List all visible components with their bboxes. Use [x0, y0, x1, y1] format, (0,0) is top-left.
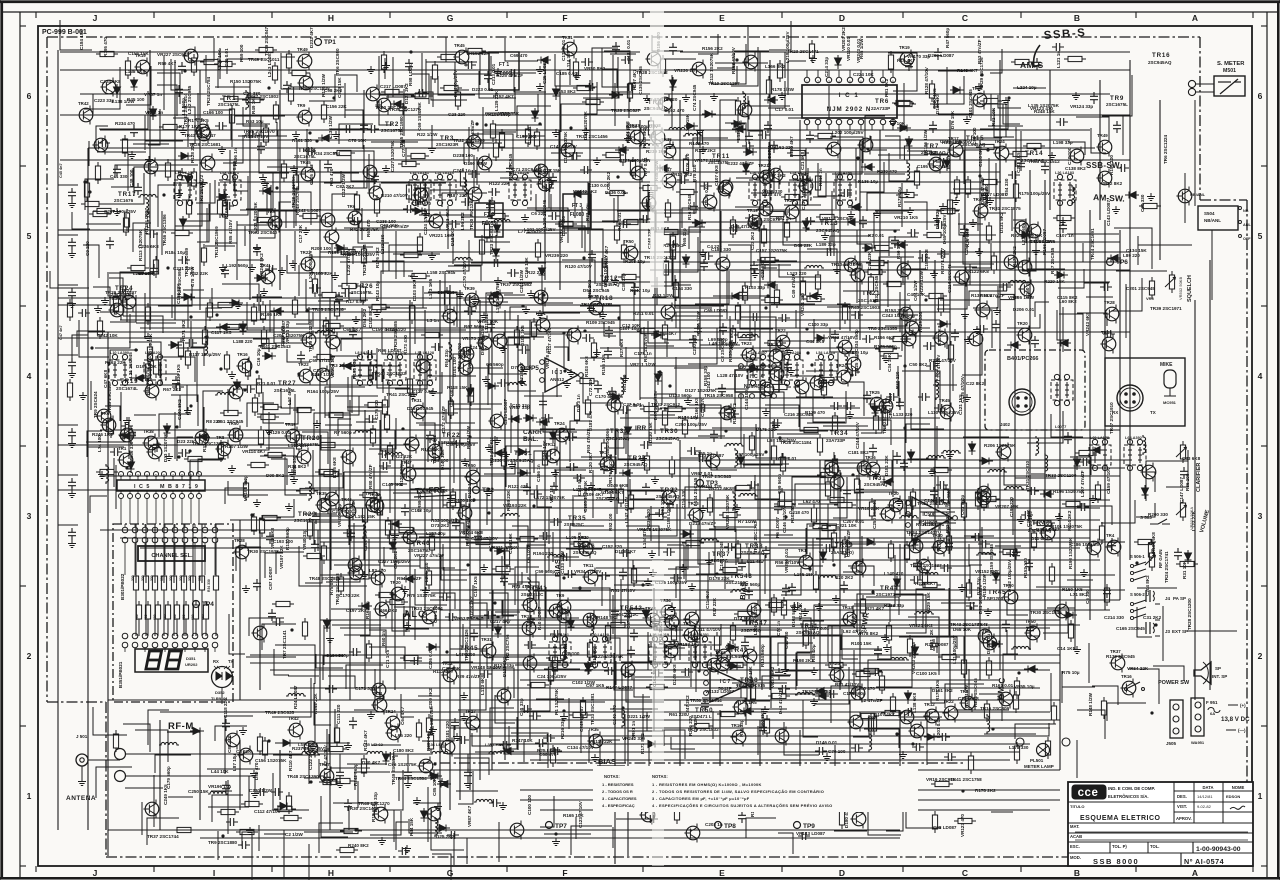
svg-text:C132 1/2W: C132 1/2W: [328, 115, 333, 139]
svg-text:TR21: TR21: [535, 311, 546, 316]
svg-text:TR31: TR31: [411, 398, 422, 403]
svg-text:I C 7: I C 7: [720, 679, 731, 685]
svg-text:6: 6: [860, 80, 862, 84]
svg-text:D54 10K: D54 10K: [660, 496, 665, 515]
svg-text:R1 1S2075K: R1 1S2075K: [554, 688, 559, 715]
svg-text:C214 330: C214 330: [1104, 615, 1124, 620]
svg-text:C152 220: C152 220: [602, 544, 622, 549]
svg-text:R134 560p: R134 560p: [760, 644, 765, 667]
svg-text:C5 330: C5 330: [1085, 589, 1090, 604]
svg-text:MIKE: MIKE: [1160, 362, 1173, 368]
svg-text:2SC1617L: 2SC1617L: [858, 298, 880, 303]
svg-text:R229 330: R229 330: [918, 312, 923, 332]
svg-text:DES.: DES.: [1177, 794, 1187, 799]
svg-text:C21 6K8: C21 6K8: [760, 259, 765, 278]
svg-text:ELETRÔNICOS S/A.: ELETRÔNICOS S/A.: [1108, 794, 1149, 799]
svg-text:R40 LD087: R40 LD087: [537, 606, 542, 630]
svg-text:10: 10: [197, 473, 201, 477]
svg-text:C60 330: C60 330: [1140, 194, 1145, 212]
svg-text:VR502 50KB: VR502 50KB: [1178, 277, 1183, 300]
svg-text:2SC1675L: 2SC1675L: [708, 160, 730, 165]
svg-text:C165 2SC945: C165 2SC945: [1116, 626, 1145, 631]
svg-text:TR8: TR8: [216, 435, 225, 440]
svg-text:C39 33p: C39 33p: [621, 273, 626, 291]
svg-text:TR9 2SC1880: TR9 2SC1880: [208, 840, 238, 845]
svg-text:TR35: TR35: [316, 491, 327, 496]
svg-text:R128 220: R128 220: [190, 143, 195, 163]
svg-text:VR176 2SC945: VR176 2SC945: [608, 454, 613, 486]
svg-text:L10 LA390: L10 LA390: [110, 351, 129, 355]
svg-text:3 - CAPACITORES EM µF, +=10⁻³µ: 3 - CAPACITORES EM µF, +=10⁻³µF µ=10⁻⁶µF: [652, 796, 750, 801]
svg-text:R118 15K: R118 15K: [447, 385, 468, 390]
svg-text:L162 470: L162 470: [665, 108, 685, 113]
svg-text:R45 100: R45 100: [127, 97, 145, 102]
svg-text:TR12: TR12: [600, 275, 618, 282]
svg-text:2SC945AQ: 2SC945AQ: [656, 436, 680, 441]
svg-text:R236 1K5: R236 1K5: [176, 364, 181, 385]
svg-text:VR91 1n: VR91 1n: [631, 721, 636, 739]
svg-text:TITULO: TITULO: [1070, 804, 1084, 809]
svg-text:L36 LA288: L36 LA288: [782, 351, 801, 355]
svg-text:C226 6K8: C226 6K8: [138, 244, 159, 249]
svg-text:C2 2SC945: C2 2SC945: [720, 338, 725, 362]
svg-text:L173 1K5: L173 1K5: [428, 278, 433, 299]
svg-text:CHANNEL SEL.: CHANNEL SEL.: [151, 553, 193, 559]
svg-text:C72 22K: C72 22K: [588, 377, 593, 396]
svg-text:R229 15K: R229 15K: [926, 592, 931, 613]
svg-text:R216 33p: R216 33p: [560, 719, 565, 739]
svg-text:L203 1S2075K: L203 1S2075K: [253, 201, 258, 233]
svg-text:C49 47n/ZF: C49 47n/ZF: [791, 273, 796, 298]
svg-text:R175 100µ/25V: R175 100µ/25V: [1018, 191, 1051, 196]
svg-text:Nº AI-0574: Nº AI-0574: [1184, 857, 1224, 866]
svg-text:D238 100: D238 100: [453, 153, 473, 158]
svg-text:4: 4: [27, 371, 32, 381]
svg-text:C76 8K2: C76 8K2: [934, 368, 939, 387]
svg-text:TR3 2SC1772: TR3 2SC1772: [199, 174, 204, 204]
svg-text:TR50: TR50: [228, 421, 239, 426]
svg-text:D108 4K7: D108 4K7: [615, 549, 636, 554]
svg-text:VR12 8K2: VR12 8K2: [1101, 181, 1123, 186]
svg-text:C184 15K: C184 15K: [79, 29, 84, 50]
svg-text:TR1: TR1: [365, 491, 374, 496]
svg-text:VR52 47/10V: VR52 47/10V: [828, 335, 856, 340]
svg-text:AM-SW.: AM-SW.: [1093, 192, 1125, 204]
svg-text:5042P: 5042P: [718, 686, 733, 692]
svg-text:TR16: TR16: [1152, 52, 1170, 59]
svg-text:C87 LD087: C87 LD087: [268, 566, 273, 590]
svg-text:NJM 2902 N: NJM 2902 N: [827, 106, 872, 113]
svg-text:R178 2K2: R178 2K2: [975, 788, 996, 793]
svg-text:TR2: TR2: [385, 121, 399, 128]
svg-text:TR31: TR31: [514, 450, 532, 457]
svg-text:S504: S504: [1204, 211, 1215, 216]
svg-text:L197 47n/ZF: L197 47n/ZF: [1080, 470, 1085, 497]
svg-text:TX: TX: [228, 659, 234, 664]
svg-text:2: 2: [817, 80, 819, 84]
svg-text:C87 100µ/25V: C87 100µ/25V: [735, 452, 765, 457]
svg-text:A: A: [1192, 13, 1198, 23]
svg-text:R66 100µ/25V: R66 100µ/25V: [465, 516, 470, 546]
svg-text:TX-FRE: TX-FRE: [415, 484, 447, 496]
svg-text:2SC1675L: 2SC1675L: [111, 292, 133, 297]
svg-text:L111 47/10V: L111 47/10V: [695, 627, 722, 632]
svg-text:R230 470: R230 470: [877, 169, 897, 174]
svg-text:C157 1K5: C157 1K5: [473, 576, 478, 597]
svg-text:C101 2SC945: C101 2SC945: [968, 89, 973, 118]
svg-text:9-02-82: 9-02-82: [1197, 804, 1212, 809]
svg-text:MAT.: MAT.: [1070, 824, 1079, 829]
svg-text:2: 2: [1258, 651, 1263, 661]
svg-text:NB/ANL: NB/ANL: [1204, 218, 1221, 223]
svg-text:VR36 330: VR36 330: [129, 441, 134, 462]
svg-text:TR44: TR44: [880, 585, 898, 592]
svg-text:R156 1K5: R156 1K5: [601, 354, 606, 375]
svg-text:TR33 2SC912: TR33 2SC912: [651, 402, 681, 407]
svg-text:C215 330: C215 330: [332, 509, 352, 514]
svg-text:3: 3: [828, 80, 830, 84]
svg-text:VR114 4K7: VR114 4K7: [242, 449, 266, 454]
svg-text:VR227 47n/ZF: VR227 47n/ZF: [414, 553, 444, 558]
svg-text:L5 LA298: L5 LA298: [835, 171, 852, 175]
svg-text:2SB525C: 2SB525C: [708, 558, 729, 563]
svg-text:I C 5: I C 5: [134, 484, 150, 490]
svg-text:C250 100µ/25V: C250 100µ/25V: [675, 422, 708, 427]
svg-text:2SC945AQ: 2SC945AQ: [510, 458, 534, 463]
svg-text:TP7: TP7: [555, 823, 567, 830]
svg-text:L44 10K: L44 10K: [211, 769, 229, 774]
svg-text:VR152 4K7: VR152 4K7: [975, 569, 999, 574]
svg-text:R195 470: R195 470: [103, 37, 108, 57]
svg-text:PA: PA: [1148, 541, 1155, 546]
svg-text:C247 47n/ZF: C247 47n/ZF: [382, 224, 409, 229]
svg-text:VR503 50KA: VR503 50KA: [1189, 507, 1194, 530]
svg-text:TR29: TR29: [298, 511, 316, 518]
svg-text:L133 220: L133 220: [893, 412, 913, 417]
svg-text:C102 1/2W: C102 1/2W: [572, 680, 596, 685]
svg-text:R211 0.01: R211 0.01: [633, 311, 654, 316]
svg-text:R120 4K7: R120 4K7: [588, 452, 593, 473]
svg-text:S 506-2: S 506-2: [1130, 592, 1145, 597]
svg-text:2SC1675L: 2SC1675L: [218, 102, 240, 107]
svg-text:TR31: TR31: [768, 342, 779, 347]
svg-text:D18 2K2: D18 2K2: [450, 227, 455, 246]
svg-text:2SC945AQ: 2SC945AQ: [596, 282, 620, 287]
svg-text:D76 470: D76 470: [685, 153, 690, 171]
svg-text:R2 0.01: R2 0.01: [868, 233, 885, 238]
svg-text:R179 2K2: R179 2K2: [1012, 246, 1017, 267]
svg-text:330: 330: [198, 575, 202, 581]
svg-text:TR31: TR31: [562, 35, 573, 40]
svg-text:C214 2SC945: C214 2SC945: [947, 264, 952, 293]
svg-text:1 - RESISTORES: 1 - RESISTORES: [602, 782, 634, 787]
svg-text:VR55 10µ: VR55 10µ: [1014, 684, 1035, 689]
svg-text:D170 47n/ZF: D170 47n/ZF: [980, 177, 985, 204]
svg-text:C206 1/2W: C206 1/2W: [696, 310, 701, 334]
svg-text:C22 8K2: C22 8K2: [966, 381, 985, 386]
svg-text:2SD471 L: 2SD471 L: [691, 714, 712, 719]
svg-text:C226 0.01: C226 0.01: [428, 647, 433, 669]
svg-text:NOTAS:: NOTAS:: [604, 774, 620, 779]
svg-text:F: F: [562, 868, 567, 878]
svg-text:TR35: TR35: [568, 515, 586, 522]
svg-text:R143 470: R143 470: [689, 141, 709, 146]
svg-text:VR122 6K8: VR122 6K8: [965, 269, 989, 274]
svg-text:C31 2K2: C31 2K2: [1143, 615, 1162, 620]
svg-text:VR5: VR5: [1146, 296, 1155, 301]
svg-text:F 951: F 951: [1206, 700, 1218, 705]
svg-text:VR207 15K: VR207 15K: [995, 504, 1019, 509]
svg-text:D43 47n/ZF: D43 47n/ZF: [778, 689, 783, 714]
svg-text:TR6: TR6: [875, 98, 889, 105]
svg-text:D131 8K2: D131 8K2: [999, 212, 1004, 233]
svg-text:C150 47/10V: C150 47/10V: [372, 327, 400, 332]
svg-text:L123 220: L123 220: [787, 271, 807, 276]
svg-text:B401/PC266: B401/PC266: [1007, 356, 1039, 362]
svg-text:VR67 0.01: VR67 0.01: [691, 471, 713, 476]
svg-text:D232 4K7: D232 4K7: [309, 27, 314, 48]
svg-text:R150 1K5: R150 1K5: [1062, 587, 1083, 592]
svg-text:C185 6K8: C185 6K8: [924, 249, 929, 270]
svg-text:C107 6K8: C107 6K8: [714, 165, 719, 186]
svg-text:L96 2K2: L96 2K2: [460, 212, 465, 230]
svg-text:R148 2SC945: R148 2SC945: [295, 186, 300, 215]
svg-text:R27 6K8: R27 6K8: [619, 338, 624, 357]
svg-text:C250 15K: C250 15K: [188, 789, 209, 794]
svg-text:R81 47/10V: R81 47/10V: [611, 588, 636, 593]
svg-text:TR542: TR542: [620, 605, 643, 612]
svg-text:5: 5: [849, 80, 851, 84]
svg-text:D103 1K5: D103 1K5: [520, 325, 525, 346]
svg-text:TR38: TR38: [143, 429, 154, 434]
svg-text:R36 100: R36 100: [1185, 473, 1190, 491]
svg-text:C123 47/10V: C123 47/10V: [578, 800, 583, 828]
svg-text:TP4: TP4: [202, 601, 214, 608]
svg-text:C14 1K5: C14 1K5: [1057, 646, 1076, 651]
svg-text:TR36: TR36: [865, 455, 876, 460]
svg-text:TR49: TR49: [297, 47, 308, 52]
svg-text:M B 8 7 1 9: M B 8 7 1 9: [160, 484, 199, 490]
svg-text:R91 47n/ZF: R91 47n/ZF: [980, 293, 1005, 298]
svg-text:TR31: TR31: [868, 475, 886, 482]
svg-text:BIAS: BIAS: [553, 559, 562, 577]
svg-text:IND. E COM. DE COMP.: IND. E COM. DE COMP.: [1108, 786, 1155, 791]
svg-text:VR178 470: VR178 470: [545, 346, 550, 369]
svg-text:C25 LD087: C25 LD087: [542, 60, 547, 84]
svg-text:C6 1/2W: C6 1/2W: [526, 544, 531, 563]
svg-text:POWER SW: POWER SW: [1158, 680, 1190, 686]
svg-text:C69 1S2075K: C69 1S2075K: [417, 101, 422, 131]
svg-text:R60 1n: R60 1n: [381, 631, 386, 646]
svg-text:2SC1675L: 2SC1675L: [408, 548, 430, 553]
svg-text:1 - RESISTORES EM OHMS(Ω) K=10: 1 - RESISTORES EM OHMS(Ω) K=1000Ω , M=10…: [652, 782, 762, 787]
svg-text:R126 6K8: R126 6K8: [332, 457, 337, 478]
svg-text:TR20: TR20: [888, 491, 899, 496]
svg-text:7: 7: [871, 80, 873, 84]
svg-text:DATA: DATA: [1202, 785, 1213, 790]
svg-text:C170 47/10V: C170 47/10V: [462, 259, 467, 287]
svg-text:L138 6K8: L138 6K8: [912, 692, 917, 713]
svg-text:25A473: 25A473: [736, 684, 753, 689]
svg-text:TR45: TR45: [988, 589, 1006, 596]
svg-text:D219 47n/ZF: D219 47n/ZF: [689, 521, 716, 526]
svg-text:TR38: TR38: [745, 543, 763, 550]
svg-text:C64 1/2W: C64 1/2W: [913, 280, 918, 301]
svg-text:TR14: TR14: [1025, 150, 1043, 157]
svg-text:D130 6K8: D130 6K8: [935, 93, 940, 114]
svg-text:C102 8K2: C102 8K2: [368, 307, 373, 328]
svg-text:C205 4K7: C205 4K7: [309, 164, 314, 185]
svg-text:VR134 33p: VR134 33p: [285, 321, 290, 344]
svg-text:SSB-SW.: SSB-SW.: [1086, 161, 1122, 170]
svg-text:TR49 2SC635: TR49 2SC635: [265, 710, 295, 715]
svg-text:TR1: TR1: [222, 95, 236, 102]
svg-text:TR25: TR25: [829, 661, 840, 666]
svg-text:C223 33p: C223 33p: [94, 98, 114, 103]
svg-text:R198 1S2075K: R198 1S2075K: [1068, 537, 1073, 569]
svg-text:IRR: IRR: [635, 425, 647, 432]
svg-text:TR6: TR6: [960, 689, 969, 694]
svg-text:E: E: [719, 868, 725, 878]
svg-text:C74 2SC945: C74 2SC945: [692, 84, 697, 111]
svg-text:VR206 33p: VR206 33p: [337, 504, 342, 527]
svg-text:J: J: [93, 868, 98, 878]
svg-text:TR50: TR50: [695, 707, 713, 714]
svg-text:CLARIFIER: CLARIFIER: [1196, 463, 1202, 492]
svg-text:C180 8K2: C180 8K2: [393, 748, 414, 753]
svg-text:TR39: TR39: [835, 542, 853, 549]
svg-text:D221 1/2W: D221 1/2W: [627, 714, 651, 719]
svg-text:TR22: TR22: [298, 362, 309, 367]
svg-text:R80 47n/ZF: R80 47n/ZF: [368, 464, 373, 489]
svg-text:C135 2SC945: C135 2SC945: [638, 66, 643, 95]
svg-text:TR31: TR31: [481, 637, 492, 642]
svg-text:TR44 2SC1691: TR44 2SC1691: [1090, 228, 1095, 260]
svg-text:SP: SP: [1215, 666, 1221, 671]
svg-text:L3 1n: L3 1n: [427, 318, 439, 323]
svg-text:2 - TODOS OS R: 2 - TODOS OS R: [602, 789, 633, 794]
svg-text:L30 LA120: L30 LA120: [590, 633, 609, 637]
svg-text:TR29 2SC1726: TR29 2SC1726: [979, 57, 984, 89]
svg-text:R77 0.01: R77 0.01: [643, 157, 648, 176]
svg-text:UR202: UR202: [185, 662, 198, 667]
svg-text:cce: cce: [1078, 787, 1099, 799]
svg-text:3: 3: [1258, 511, 1263, 521]
svg-text:G: G: [447, 13, 454, 23]
svg-text:ANL: ANL: [1243, 223, 1251, 227]
svg-text:330: 330: [169, 575, 173, 581]
svg-text:TP5: TP5: [527, 365, 539, 372]
svg-text:TR46: TR46: [341, 497, 352, 502]
svg-text:C158 LD087: C158 LD087: [666, 502, 671, 528]
svg-text:C: C: [962, 868, 968, 878]
svg-text:R236 220: R236 220: [646, 509, 651, 529]
svg-text:TR46: TR46: [412, 540, 430, 547]
svg-text:R122 22K: R122 22K: [489, 181, 510, 186]
svg-text:D352: D352: [215, 690, 225, 695]
svg-text:C71 1K5: C71 1K5: [385, 649, 390, 668]
svg-text:C104 560p: C104 560p: [326, 653, 349, 658]
svg-text:VR210 1K5: VR210 1K5: [894, 215, 918, 220]
svg-text:TR30 2SC1246: TR30 2SC1246: [469, 198, 474, 230]
svg-text:VR159 2SC945: VR159 2SC945: [989, 544, 994, 576]
svg-text:S. METER: S. METER: [1217, 61, 1245, 67]
svg-text:TR30: TR30: [660, 428, 678, 435]
svg-text:C4 220: C4 220: [707, 244, 722, 249]
svg-text:TR19: TR19: [285, 422, 296, 427]
svg-text:R52 1S2075K: R52 1S2075K: [429, 705, 434, 735]
svg-text:L111 10K: L111 10K: [484, 313, 489, 333]
svg-text:VR243 6K8: VR243 6K8: [1085, 312, 1090, 336]
svg-text:R156 2K2: R156 2K2: [702, 46, 723, 51]
svg-text:VR87 6K8: VR87 6K8: [270, 527, 275, 549]
svg-text:R176 1/2W: R176 1/2W: [321, 73, 326, 97]
svg-text:2SC945AQ: 2SC945AQ: [962, 142, 986, 147]
svg-text:LSP1200: LSP1200: [438, 440, 458, 445]
svg-text:R143 10µ: R143 10µ: [375, 281, 380, 301]
svg-text:RF GAIN: RF GAIN: [1158, 550, 1163, 569]
svg-text:C243 8K2: C243 8K2: [577, 475, 582, 496]
svg-text:R31 10K: R31 10K: [1182, 560, 1187, 579]
svg-text:C217 4K7: C217 4K7: [490, 619, 511, 624]
svg-text:L150 1n: L150 1n: [1025, 281, 1030, 298]
svg-text:R173 8K2: R173 8K2: [640, 733, 645, 754]
svg-text:R130 560p: R130 560p: [285, 527, 290, 550]
svg-text:C17 22K: C17 22K: [298, 224, 303, 243]
svg-text:2SC945AQ: 2SC945AQ: [816, 228, 840, 233]
svg-text:VR21 22K: VR21 22K: [391, 454, 413, 459]
svg-text:R93 1/2W: R93 1/2W: [653, 293, 674, 298]
svg-text:2: 2: [27, 651, 32, 661]
svg-text:4: 4: [1258, 371, 1263, 381]
svg-text:C16 10µ: C16 10µ: [256, 348, 261, 366]
svg-text:L110 100µ/25V: L110 100µ/25V: [928, 410, 960, 415]
svg-text:330: 330: [188, 575, 192, 581]
svg-text:D33 1S2075K: D33 1S2075K: [163, 432, 168, 462]
svg-text:C10 100: C10 100: [1067, 147, 1072, 165]
svg-text:C209 2K2: C209 2K2: [428, 688, 433, 709]
svg-text:VR57 8K2: VR57 8K2: [770, 666, 775, 688]
svg-text:2SC1675L: 2SC1675L: [294, 518, 316, 523]
svg-text:L89 220: L89 220: [1123, 253, 1140, 258]
svg-text:R47 560p: R47 560p: [945, 28, 950, 48]
svg-text:4: 4: [838, 80, 840, 84]
svg-text:1-00-90943-00: 1-00-90943-00: [1196, 846, 1241, 853]
svg-text:VR87 4K7: VR87 4K7: [467, 805, 472, 827]
svg-text:TR6 2SC1224: TR6 2SC1224: [1163, 134, 1168, 164]
svg-text:R67 470: R67 470: [366, 219, 371, 237]
svg-text:C242 10K: C242 10K: [97, 333, 118, 338]
svg-text:R54 33p: R54 33p: [444, 349, 449, 367]
svg-text:C78 10K: C78 10K: [348, 138, 367, 143]
svg-text:TR42: TR42: [78, 101, 89, 106]
svg-text:2SC1675L: 2SC1675L: [381, 128, 403, 133]
svg-text:R101 1S2075K: R101 1S2075K: [1051, 524, 1083, 529]
svg-text:D73 2K2: D73 2K2: [431, 523, 450, 528]
svg-text:C197 2K2: C197 2K2: [346, 608, 367, 613]
svg-text:FT 3: FT 3: [572, 203, 582, 209]
svg-text:D49 47/10V: D49 47/10V: [731, 224, 756, 229]
svg-text:C69 4K7: C69 4K7: [343, 327, 362, 332]
svg-text:C143 LD087: C143 LD087: [1106, 200, 1111, 226]
svg-text:2SC945 AQ: 2SC945 AQ: [921, 150, 946, 155]
svg-text:F: F: [562, 13, 567, 23]
svg-text:TR19: TR19: [904, 314, 915, 319]
svg-text:L48 LA371: L48 LA371: [220, 171, 239, 175]
svg-text:TR24 2SC784: TR24 2SC784: [206, 76, 211, 106]
svg-text:D68 10K: D68 10K: [953, 627, 972, 632]
svg-text:R152 330: R152 330: [1023, 558, 1028, 578]
